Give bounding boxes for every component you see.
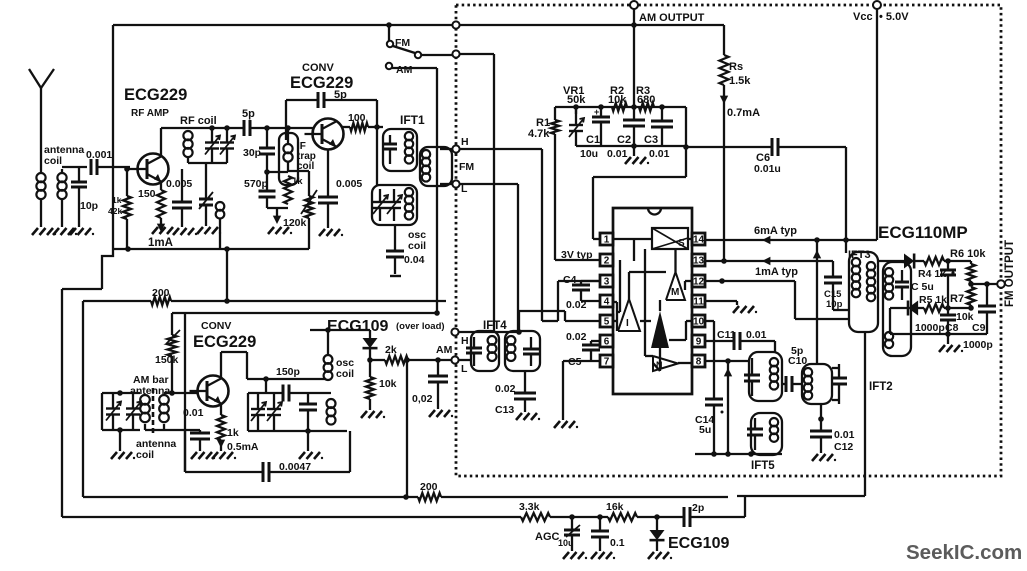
switch AM contact xyxy=(386,63,392,69)
wire C14 ground rail xyxy=(695,453,782,455)
node H xyxy=(452,145,459,152)
svg-text:1: 1 xyxy=(604,235,610,246)
wire AM output drop xyxy=(633,9,635,107)
antenna xyxy=(29,69,54,88)
svg-text:0.01: 0.01 xyxy=(183,407,204,419)
amp triangle filled xyxy=(651,311,669,348)
Q3 emitter resistor 1k xyxy=(220,404,222,415)
ground RF secondary xyxy=(197,227,203,234)
svg-text:coil: coil xyxy=(44,155,62,167)
svg-text:(over load): (over load) xyxy=(396,321,445,332)
resistor 120k variable xyxy=(288,170,309,172)
svg-text:0.01: 0.01 xyxy=(649,148,670,160)
wire L tap xyxy=(440,183,456,185)
resistor 10k AM xyxy=(369,360,371,377)
ferrite core dashed xyxy=(152,388,155,433)
svg-text:C11: C11 xyxy=(717,329,736,341)
svg-text:0.02: 0.02 xyxy=(566,331,587,343)
capacitor C11 0.01 xyxy=(733,332,736,350)
ground 10p xyxy=(70,228,76,235)
svg-text:RF coil: RF coil xyxy=(180,115,217,127)
svg-text:FM: FM xyxy=(459,161,474,173)
potentiometer VR1 xyxy=(575,107,577,114)
osc coil upper xyxy=(324,355,333,364)
IFT3 secondary can xyxy=(883,262,911,356)
ground C12 xyxy=(812,454,818,461)
amp triangle M xyxy=(666,272,685,300)
AM osc tank xyxy=(247,393,249,431)
svg-text:CONV: CONV xyxy=(302,62,334,74)
svg-text:1k: 1k xyxy=(292,176,303,187)
wire pin7 xyxy=(563,360,600,362)
node L2 xyxy=(451,356,458,363)
ground detector xyxy=(947,334,949,344)
pin 4 xyxy=(600,295,613,307)
wire 570p-1k bottom rail xyxy=(267,207,288,209)
wire osc coil to diode line xyxy=(327,330,329,355)
svg-text:0.02: 0.02 xyxy=(566,299,587,311)
wire Vcc drop xyxy=(876,9,878,240)
pin 6 xyxy=(600,335,613,347)
pin 7 xyxy=(600,355,613,367)
capacitor C15 xyxy=(832,261,834,277)
wire 6mA branch to IFT2 can xyxy=(816,240,818,364)
resistor 42k base bias xyxy=(126,169,128,196)
svg-text:AM: AM xyxy=(396,64,413,76)
diode D1 ECG110MP top xyxy=(904,254,914,269)
capacitor C4 0.02 xyxy=(580,281,582,285)
volume block top rail xyxy=(555,106,686,108)
ground AM tank xyxy=(119,430,121,451)
capacitor 10p xyxy=(78,167,80,182)
pin 8 xyxy=(692,355,705,367)
ground Q3 emitter xyxy=(220,440,222,451)
svg-text:200: 200 xyxy=(152,287,170,299)
capacitor C8 1000p xyxy=(947,308,949,315)
svg-text:4.7k: 4.7k xyxy=(528,128,550,140)
mixer box S xyxy=(652,228,688,249)
svg-text:CONV: CONV xyxy=(201,320,231,332)
svg-text:0.02: 0.02 xyxy=(495,383,516,395)
svg-text:• 5.0V: • 5.0V xyxy=(879,11,909,23)
svg-text:C3: C3 xyxy=(644,134,658,146)
svg-text:S: S xyxy=(678,238,685,249)
svg-text:120k: 120k xyxy=(283,217,307,229)
wire FM output rail xyxy=(971,283,997,285)
wire AGC line 1 with 200 ohm xyxy=(83,496,418,498)
svg-text:16k: 16k xyxy=(606,501,624,513)
wire top supply rail xyxy=(113,24,724,26)
antenna coil primary xyxy=(36,173,45,182)
ground osc tank xyxy=(305,428,311,434)
svg-text:R5 1k: R5 1k xyxy=(919,294,947,306)
wire RF AGC line xyxy=(113,248,309,250)
wire detector top rail xyxy=(878,260,904,262)
wire AM line to AGC xyxy=(406,360,408,497)
svg-text:coil: coil xyxy=(336,368,354,380)
svg-text:6: 6 xyxy=(604,337,610,348)
svg-text:I: I xyxy=(626,318,629,329)
capacitor 0.005 emitter bypass xyxy=(181,169,183,202)
svg-text:C13: C13 xyxy=(495,404,514,416)
variable capacitor AM tank 2 xyxy=(132,393,134,409)
IF trap coil xyxy=(287,128,289,144)
IFT5 upper can xyxy=(749,352,782,401)
svg-text:200: 200 xyxy=(420,481,438,493)
AM converter bottom with 0.0047 xyxy=(185,471,263,473)
bar antenna winding 1 xyxy=(140,395,150,405)
svg-text:10u: 10u xyxy=(580,148,598,160)
wire AM base xyxy=(164,392,198,394)
pin 2 xyxy=(600,254,613,266)
wire vertical FM switch feed to IFT4 xyxy=(493,54,495,331)
wire pin13 1mA rail xyxy=(705,260,833,262)
svg-text:5p: 5p xyxy=(242,108,255,120)
node FM OUTPUT xyxy=(997,280,1005,288)
capacitor 0.04 xyxy=(394,225,396,251)
wire top rail to Rs xyxy=(723,25,725,55)
pin 3 xyxy=(600,275,613,287)
detector bottom rail xyxy=(890,333,987,335)
pin 11 xyxy=(692,295,705,307)
wire pin12 xyxy=(705,280,795,282)
capacitor C5 0.02 xyxy=(591,340,600,342)
antenna coil secondary xyxy=(57,173,66,182)
IFT1 secondary can xyxy=(420,147,452,186)
svg-text:L: L xyxy=(461,363,468,375)
capacitor 30p xyxy=(266,128,268,148)
svg-text:14: 14 xyxy=(693,235,705,246)
svg-text:2p: 2p xyxy=(692,502,704,514)
svg-text:0.5mA: 0.5mA xyxy=(227,441,259,453)
ground 0.02 xyxy=(429,410,435,417)
ground 570p rail xyxy=(276,208,278,216)
pin 14 xyxy=(692,233,705,245)
IFT1 osc can xyxy=(372,185,417,225)
ground Q2 emitter xyxy=(319,229,325,236)
wire pin5 from IFT4 xyxy=(519,310,565,312)
dashed boundary box (FM section) xyxy=(456,5,1001,476)
IFT2 can xyxy=(802,364,832,404)
capacitor C 5u xyxy=(947,261,949,270)
svg-text:FM OUTPUT: FM OUTPUT xyxy=(1004,240,1016,307)
resistor 3.3k xyxy=(521,513,550,521)
wire H tap xyxy=(440,148,456,150)
IFT3 primary can xyxy=(849,252,878,332)
wire AGC pickup vertical xyxy=(864,332,866,496)
svg-text:150p: 150p xyxy=(276,366,300,378)
wire detector feedback arrow xyxy=(727,361,729,454)
svg-text:SeekIC.com: SeekIC.com xyxy=(906,541,1022,564)
resistor 16k xyxy=(608,513,637,521)
ground 10k xyxy=(361,411,367,418)
svg-text:50k: 50k xyxy=(567,94,586,106)
svg-text:3: 3 xyxy=(604,277,610,288)
IFT5 lower can xyxy=(751,413,782,455)
svg-text:AGC: AGC xyxy=(535,531,560,543)
capacitor C9 1000p xyxy=(986,284,988,306)
svg-text:10p: 10p xyxy=(80,200,98,212)
svg-text:1mA: 1mA xyxy=(148,237,173,249)
node on dashed boundary xyxy=(452,50,459,57)
svg-text:150k: 150k xyxy=(155,354,179,366)
wire IFT4 secondary bottom to C13 xyxy=(524,371,526,393)
ground 0.1 xyxy=(591,552,597,559)
node on top rail at dashed crossing xyxy=(452,21,459,28)
svg-text:C1: C1 xyxy=(586,134,600,146)
switch FM contact xyxy=(387,41,393,47)
capacitor 0.005 Q2 emitter xyxy=(327,149,329,197)
svg-text:11: 11 xyxy=(693,297,704,308)
svg-text:150: 150 xyxy=(138,188,156,200)
wire RF tank bottom xyxy=(188,162,227,164)
svg-text:42k: 42k xyxy=(108,206,122,216)
wire H to IF amp xyxy=(459,148,542,150)
svg-text:10: 10 xyxy=(693,317,705,328)
variable capacitor RF tank 1 xyxy=(211,128,213,143)
svg-text:0.04: 0.04 xyxy=(404,254,425,266)
ground ECG109 diode xyxy=(648,552,654,559)
svg-text:R6 10k: R6 10k xyxy=(950,248,986,260)
wire pin10 to C14 xyxy=(705,320,714,322)
svg-text:ECG110MP: ECG110MP xyxy=(878,223,968,242)
svg-text:ECG229: ECG229 xyxy=(193,333,256,351)
svg-text:0.7mA: 0.7mA xyxy=(727,107,760,119)
capacitor C2 0.01 xyxy=(633,107,635,120)
wire C6 coupling xyxy=(686,146,772,148)
wire Q2 base xyxy=(312,128,314,134)
svg-text:+: + xyxy=(594,107,599,117)
node AM OUTPUT xyxy=(630,1,638,9)
ground volume block xyxy=(633,146,635,156)
diode D2 ECG110MP bottom xyxy=(890,307,908,309)
transistor Q2 ECG229 FM conv xyxy=(313,119,344,150)
wire line2 left riser xyxy=(61,289,63,517)
capacitor C12 0.01 xyxy=(810,430,832,433)
svg-text:H: H xyxy=(461,335,469,347)
wire 2p up to detector xyxy=(744,496,746,517)
resistor R3 xyxy=(639,103,654,111)
wire AGC bottom line 2 xyxy=(62,516,521,518)
ground AGC cap xyxy=(563,552,569,559)
svg-text:Vcc: Vcc xyxy=(853,11,873,23)
AM tank top rail xyxy=(102,392,140,394)
resistor 100 xyxy=(341,126,350,128)
pin 5 xyxy=(600,315,613,327)
svg-text:6mA typ: 6mA typ xyxy=(754,225,797,237)
svg-text:10u: 10u xyxy=(558,538,574,548)
svg-text:12: 12 xyxy=(693,277,705,288)
wire AM contact to AM converter supply xyxy=(392,67,437,69)
svg-text:1000p: 1000p xyxy=(915,322,945,334)
wire pin8 xyxy=(705,360,749,362)
capacitor 0.1 xyxy=(599,517,601,531)
ground Q1 emitter xyxy=(157,224,165,232)
capacitor 0.02 AM line xyxy=(437,360,439,376)
svg-text:1mA typ: 1mA typ xyxy=(755,266,798,278)
resistor R7 xyxy=(967,287,975,305)
svg-text:C9: C9 xyxy=(972,322,986,334)
IFT4 primary can xyxy=(471,331,499,371)
ground C13 xyxy=(516,413,522,420)
resistor R5 1k xyxy=(924,304,944,312)
svg-text:0.01: 0.01 xyxy=(607,148,628,160)
svg-text:C 5u: C 5u xyxy=(911,281,934,293)
wire Q1 collector to RF coil xyxy=(160,128,162,156)
svg-text:0,02: 0,02 xyxy=(412,393,433,405)
wire IFT4 secondary top to pin5 xyxy=(518,311,520,332)
svg-text:13: 13 xyxy=(693,256,705,267)
svg-text:IFT1: IFT1 xyxy=(400,113,425,127)
pin 13 xyxy=(692,254,705,266)
wire winding bottom xyxy=(163,424,165,430)
variable capacitor osc 2 xyxy=(273,393,275,409)
svg-text:coil: coil xyxy=(408,240,426,252)
capacitor 0.01 AM base xyxy=(199,430,201,433)
svg-text:H: H xyxy=(461,136,469,148)
svg-text:AM OUTPUT: AM OUTPUT xyxy=(639,12,705,24)
wire 120k to AGC line xyxy=(308,218,310,249)
svg-text:ECG229: ECG229 xyxy=(124,86,187,104)
switch pivot xyxy=(415,52,421,58)
IFT4 secondary can xyxy=(505,331,540,371)
svg-text:coil: coil xyxy=(136,449,154,461)
wire collector to osc coil xyxy=(247,378,326,380)
AM tank rails xyxy=(101,393,103,430)
resistor 150k xyxy=(171,313,173,335)
diode ECG109 AGC xyxy=(656,517,658,530)
AM converter box left xyxy=(184,313,186,472)
pin 10 xyxy=(692,315,705,327)
resistor 1k xyxy=(267,171,288,173)
wire H2 to IFT4 xyxy=(459,331,519,333)
capacitor C14 5u xyxy=(705,398,723,401)
svg-text:0.005: 0.005 xyxy=(336,178,362,190)
wire IFT2 to C12 xyxy=(820,404,822,431)
svg-text:1k: 1k xyxy=(227,427,239,439)
svg-text:9: 9 xyxy=(696,337,702,348)
FM-AM switch pole xyxy=(388,25,390,41)
capacitor RF secondary xyxy=(205,163,207,199)
svg-text:0.001: 0.001 xyxy=(86,149,112,161)
wire antenna to base xyxy=(62,166,87,168)
svg-text:0.005: 0.005 xyxy=(166,178,192,190)
svg-text:7: 7 xyxy=(604,357,610,368)
svg-text:5: 5 xyxy=(604,317,610,328)
volume block bottom rail xyxy=(576,145,686,147)
capacitor osc fixed xyxy=(307,393,309,404)
wire line1 left riser xyxy=(82,301,84,497)
svg-text:1.5k: 1.5k xyxy=(729,75,751,87)
svg-text:570p: 570p xyxy=(244,178,268,190)
osc coil AM lower xyxy=(327,399,336,408)
capacitor 0.0047 xyxy=(262,462,265,482)
ground pin7 line xyxy=(554,421,560,428)
svg-text:IFT5: IFT5 xyxy=(751,460,775,472)
node H2 xyxy=(451,328,458,335)
svg-text:M: M xyxy=(671,287,679,298)
wire 200 ohm AM AGC line xyxy=(83,300,151,302)
resistor R1 4.7k xyxy=(554,107,556,120)
resistor Rs 1.5k xyxy=(720,55,729,85)
svg-text:0.01: 0.01 xyxy=(834,429,855,441)
variable capacitor AM tank 1 xyxy=(112,393,114,409)
wire block to pin1 xyxy=(685,107,687,177)
svg-text:2k: 2k xyxy=(385,344,397,356)
svg-text:3.3k: 3.3k xyxy=(519,501,540,513)
wire pin9 C11 xyxy=(705,340,734,342)
wire 6mA into IFT3 xyxy=(845,240,847,253)
ground antenna secondary xyxy=(53,228,59,235)
svg-text:10k: 10k xyxy=(379,378,397,390)
capacitor C1 10u electrolytic xyxy=(600,107,602,117)
pin 1 xyxy=(600,233,613,245)
capacitor 5p series xyxy=(243,120,246,136)
svg-text:30p: 30p xyxy=(243,147,261,159)
RF coil inductor xyxy=(181,127,244,129)
RF coupling coil xyxy=(216,202,225,211)
capacitor IFT2 tuning xyxy=(838,364,840,378)
resistor 200 (AM AGC) xyxy=(151,297,171,305)
IC internal wires xyxy=(619,260,621,312)
amp triangle N xyxy=(653,356,678,371)
svg-text:10p: 10p xyxy=(826,299,843,310)
svg-text:0.01u: 0.01u xyxy=(754,163,781,175)
wire left frame vertical xyxy=(112,25,114,249)
wire Q3 collector xyxy=(220,352,222,378)
ground 0.01 xyxy=(191,452,197,459)
resistor R4 1k xyxy=(924,257,944,265)
svg-text:Rs: Rs xyxy=(729,61,743,73)
pin 9 xyxy=(692,335,705,347)
wire RF bias drop xyxy=(226,249,228,301)
resistor 2k xyxy=(370,359,385,361)
svg-text:C12: C12 xyxy=(834,441,853,453)
svg-text:8: 8 xyxy=(696,357,702,368)
resistor 200 (AGC line) xyxy=(418,493,441,501)
resistor 150 emitter xyxy=(160,182,162,190)
IFT1 primary can xyxy=(383,129,417,171)
svg-text:C2: C2 xyxy=(617,134,631,146)
svg-text:2: 2 xyxy=(604,256,610,267)
bar antenna winding 2 xyxy=(159,395,169,405)
capacitor 570p xyxy=(266,172,268,191)
svg-text:C4: C4 xyxy=(563,274,577,286)
svg-text:IFT2: IFT2 xyxy=(869,381,893,393)
svg-text:0.1: 0.1 xyxy=(610,537,625,549)
svg-text:1k: 1k xyxy=(112,195,122,205)
capacitor C6 0.01u xyxy=(771,138,774,156)
wire pin11 ground xyxy=(705,300,737,302)
wire pin2 xyxy=(555,259,600,261)
transistor Q1 ECG229 RF amp xyxy=(138,154,169,185)
capacitor 5p feedback xyxy=(286,99,318,101)
IC body outline xyxy=(613,208,692,394)
wire 100 to osc section xyxy=(376,127,378,185)
pin 12 xyxy=(692,275,705,287)
svg-text:RF AMP: RF AMP xyxy=(131,108,169,119)
svg-text:4: 4 xyxy=(604,297,610,308)
resistor R6 xyxy=(967,264,975,281)
svg-text:R7: R7 xyxy=(950,293,964,305)
svg-text:AM: AM xyxy=(436,344,453,356)
variable capacitor osc 1 xyxy=(257,393,259,409)
variable capacitor RF tank 2 xyxy=(226,128,228,143)
AM converter supply box top xyxy=(172,312,437,314)
amp triangle I xyxy=(618,299,640,331)
switch lever xyxy=(393,46,415,53)
capacitor C3 0.01 xyxy=(661,107,663,121)
